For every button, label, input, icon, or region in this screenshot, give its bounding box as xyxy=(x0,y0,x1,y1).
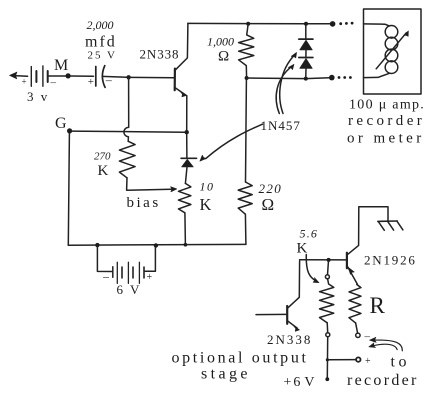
svg-text:stage: stage xyxy=(201,366,251,383)
resistor R3 1,000 ohm xyxy=(239,24,254,78)
svg-text:6 V: 6 V xyxy=(117,282,142,297)
svg-text:–: – xyxy=(102,269,110,283)
svg-text:2N338: 2N338 xyxy=(140,47,180,62)
node M dot xyxy=(66,73,71,78)
svg-text:1N457: 1N457 xyxy=(261,118,301,133)
wire G down to bottom rail xyxy=(68,133,69,245)
bias wiper arrowhead xyxy=(171,187,177,192)
svg-text:270: 270 xyxy=(94,151,111,163)
wire 270K to bias arrow xyxy=(127,178,172,190)
transistor Q2 base bar xyxy=(286,306,288,324)
resistor R5 top terminal xyxy=(327,262,330,275)
resistor R4 220 ohm xyxy=(238,182,252,214)
wire diode to 10K xyxy=(185,167,187,184)
svg-text:bias: bias xyxy=(127,195,161,211)
leader arrow to top diode xyxy=(280,55,295,114)
svg-text:G: G xyxy=(55,115,67,132)
battery B2 6V plates xyxy=(113,262,144,283)
plus output terminal circle xyxy=(356,357,360,361)
transistor Q2 2N338 base wire xyxy=(256,313,286,315)
wire 5.6K bottom to +6V xyxy=(326,337,328,379)
svg-text:recorder: recorder xyxy=(347,372,419,389)
second rail wire xyxy=(247,77,330,80)
svg-text:or meter: or meter xyxy=(347,131,425,147)
transistor Q2 emitter lead with arrow xyxy=(288,321,298,328)
transistor Q1 2N338 base bar xyxy=(174,69,176,91)
svg-text:220: 220 xyxy=(259,181,283,196)
node top rail 1000 ohm dot xyxy=(246,22,250,26)
svg-text:2,000: 2,000 xyxy=(87,18,114,32)
transistor Q3 emitter lead with inward arrow xyxy=(347,266,357,284)
svg-text:to: to xyxy=(391,354,410,371)
meter coil xyxy=(385,26,398,74)
node junction dot at emitter column xyxy=(185,130,189,134)
recorder leader arrow upper xyxy=(374,340,403,351)
svg-text:–: – xyxy=(50,77,57,89)
resistor R1 270K xyxy=(119,141,135,178)
leader arrow K to 5.6K xyxy=(306,255,316,282)
transistor Q2 collector lead xyxy=(288,261,300,308)
diode D2 1N457 top xyxy=(299,26,313,50)
svg-text:R: R xyxy=(370,293,386,318)
svg-text:Ω: Ω xyxy=(262,195,275,214)
wire base node to transistor base xyxy=(131,76,174,78)
transistor Q3 collector lead to ground xyxy=(347,207,388,255)
top dotted link to meter xyxy=(339,22,353,25)
node output junction dot xyxy=(326,358,329,361)
svg-text:+: + xyxy=(88,76,94,88)
node +6V dot xyxy=(325,377,329,381)
ground symbol xyxy=(378,221,403,230)
node 5.6K junction dot xyxy=(327,258,331,262)
svg-text:M: M xyxy=(54,57,68,74)
node rail battery left dot xyxy=(95,243,99,247)
battery B1 3v xyxy=(31,66,47,86)
recorder leader arrow lower xyxy=(373,344,397,349)
svg-text:2N1926: 2N1926 xyxy=(364,253,417,268)
svg-text:mfd: mfd xyxy=(85,34,117,51)
transistor Q1 collector lead xyxy=(175,23,188,70)
svg-text:+: + xyxy=(22,77,27,87)
leader arrow to series diode xyxy=(206,124,263,158)
resistor R5 5.6K body xyxy=(320,279,334,323)
node rail battery right dot xyxy=(154,243,158,247)
bottom rail wire xyxy=(68,243,246,246)
meter box xyxy=(364,9,422,94)
wire 220 ohm to bottom rail xyxy=(244,214,247,244)
wire G to right junction xyxy=(71,131,185,132)
base wire of 2N1926 xyxy=(300,259,347,261)
svg-text:1,000: 1,000 xyxy=(207,35,234,49)
svg-text:–: – xyxy=(364,331,371,343)
svg-text:+6V: +6V xyxy=(284,375,317,390)
svg-text:optional output: optional output xyxy=(172,350,309,367)
node base junction dot xyxy=(126,75,130,79)
leader arrow to lower diode xyxy=(276,66,292,113)
wire battery to node M xyxy=(48,75,66,77)
resistor R5 bottom terminal xyxy=(326,323,329,333)
svg-text:recorder: recorder xyxy=(348,113,425,129)
transistor Q3 2N1926 base bar xyxy=(346,253,348,269)
resistor R6 bottom terminal xyxy=(356,323,358,333)
node G dot xyxy=(67,128,72,133)
wire junction down to diode xyxy=(186,134,188,158)
battery B2 6V left lead xyxy=(97,245,112,271)
node rail emitter column dot xyxy=(184,243,188,247)
diode D3 1N457 lower xyxy=(299,50,313,77)
wire junction to plus terminal xyxy=(327,359,356,361)
wire 220 ohm column xyxy=(245,80,248,182)
svg-text:K: K xyxy=(98,163,109,179)
wire 10K to bottom rail xyxy=(184,213,187,245)
bottom dotted link to meter xyxy=(338,76,352,79)
meter arrow xyxy=(376,33,406,69)
wire node M to capacitor xyxy=(71,75,94,77)
capacitor C1 2,000 mfd 25 V xyxy=(96,66,105,88)
wire out of meter bottom xyxy=(364,73,390,77)
svg-text:100 μ amp.: 100 μ amp. xyxy=(349,98,425,113)
svg-text:3 v: 3 v xyxy=(27,89,49,104)
meter terminal bottom dot xyxy=(329,75,335,81)
wire capacitor to base node xyxy=(102,75,127,78)
svg-text:K: K xyxy=(200,195,212,214)
wire into meter top xyxy=(364,24,390,26)
wire emitter down to junction xyxy=(186,96,188,131)
meter terminal top dot xyxy=(330,21,336,27)
svg-text:Ω: Ω xyxy=(218,49,229,65)
transistor Q1 emitter lead with arrow xyxy=(175,88,187,96)
svg-text:2N338: 2N338 xyxy=(267,332,312,347)
top rail wire xyxy=(188,22,330,24)
svg-text:10: 10 xyxy=(200,180,215,194)
node second rail diode dot xyxy=(304,77,308,81)
wire input arrow left xyxy=(12,75,28,78)
diode D1 1N457 series xyxy=(181,158,196,167)
node second rail left dot xyxy=(245,76,249,80)
svg-text:+: + xyxy=(365,356,371,367)
resistor R6 R body xyxy=(349,285,361,323)
resistor R2 10K xyxy=(178,183,191,212)
svg-text:25 V: 25 V xyxy=(88,50,118,62)
battery B2 right lead xyxy=(145,248,156,272)
node top rail diode dot xyxy=(304,22,308,26)
svg-text:+: + xyxy=(147,272,153,283)
svg-text:–: – xyxy=(105,73,113,87)
wire base node down to 270K with hop over G wire xyxy=(124,77,129,141)
svg-text:5.6: 5.6 xyxy=(300,227,319,241)
